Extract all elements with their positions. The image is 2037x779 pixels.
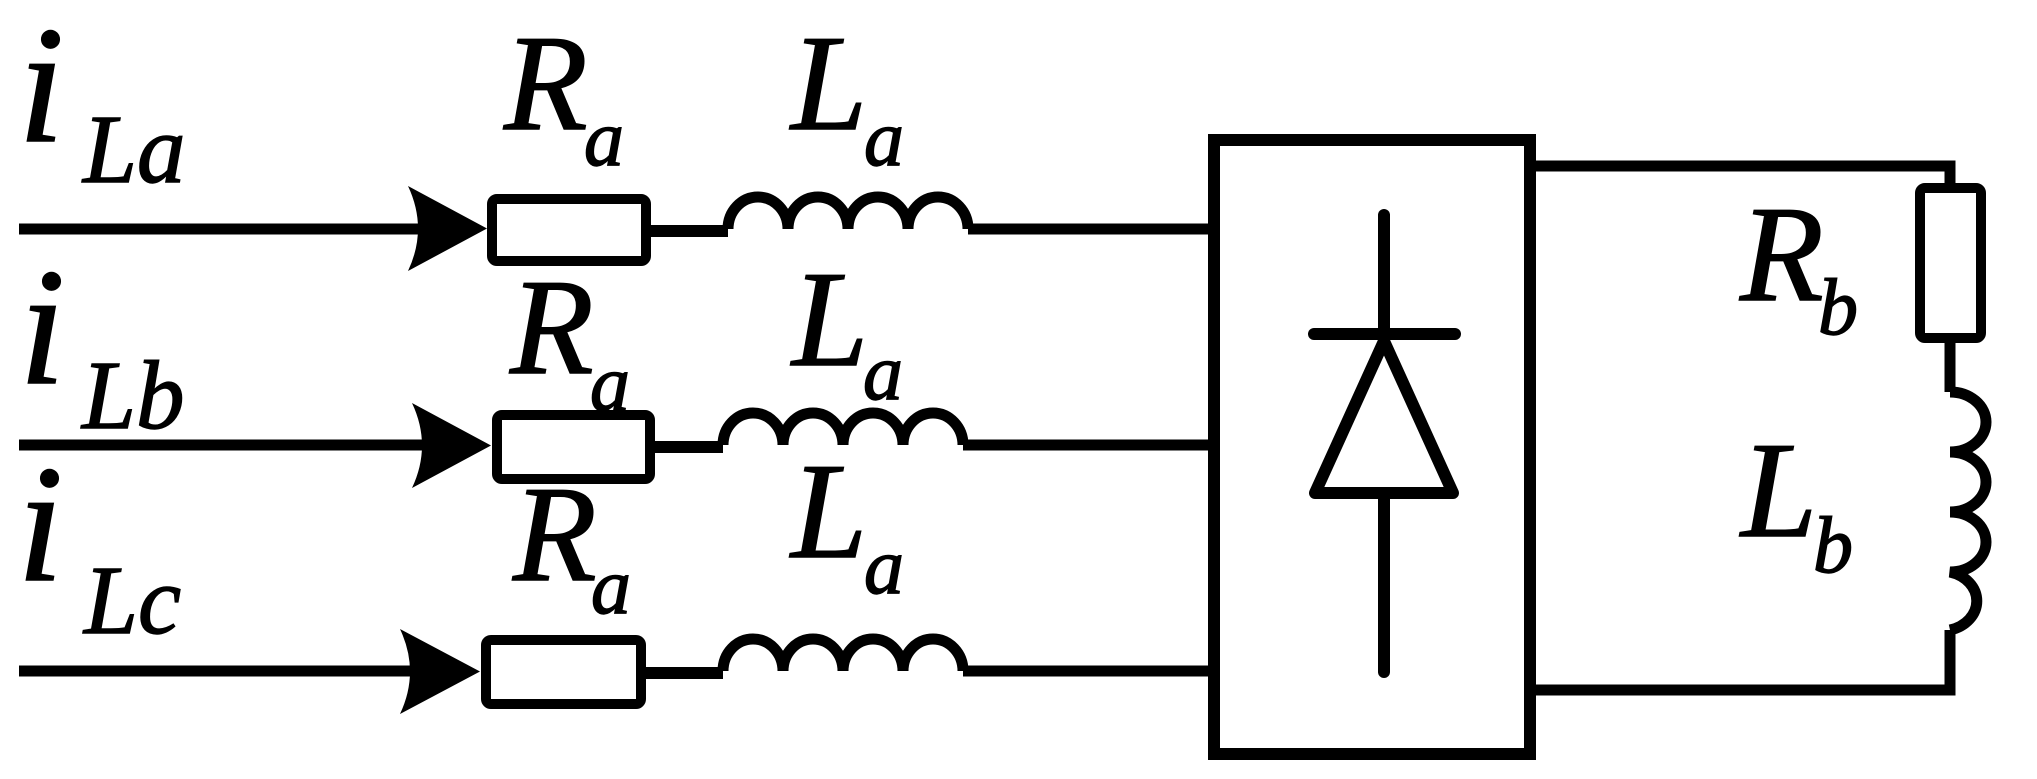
svg-text:R: R	[1739, 178, 1824, 330]
svg-text:La: La	[81, 96, 185, 203]
svg-text:i: i	[18, 0, 64, 178]
svg-text:a: a	[864, 523, 904, 611]
svg-text:i: i	[19, 235, 65, 420]
svg-text:L: L	[1739, 414, 1817, 566]
svg-text:R: R	[512, 458, 597, 610]
svg-text:a: a	[863, 329, 903, 417]
svg-text:a: a	[584, 95, 624, 183]
svg-text:L: L	[789, 7, 867, 159]
svg-text:L: L	[790, 243, 868, 395]
svg-text:R: R	[503, 7, 588, 159]
svg-text:b: b	[1818, 264, 1858, 352]
svg-text:a: a	[591, 543, 631, 631]
svg-text:a: a	[590, 340, 630, 428]
svg-text:L: L	[789, 435, 867, 587]
svg-text:a: a	[864, 95, 904, 183]
svg-text:i: i	[17, 432, 63, 617]
svg-text:Lc: Lc	[82, 547, 181, 654]
svg-text:b: b	[1813, 502, 1853, 590]
svg-text:R: R	[509, 251, 594, 403]
svg-text:Lb: Lb	[80, 342, 184, 449]
